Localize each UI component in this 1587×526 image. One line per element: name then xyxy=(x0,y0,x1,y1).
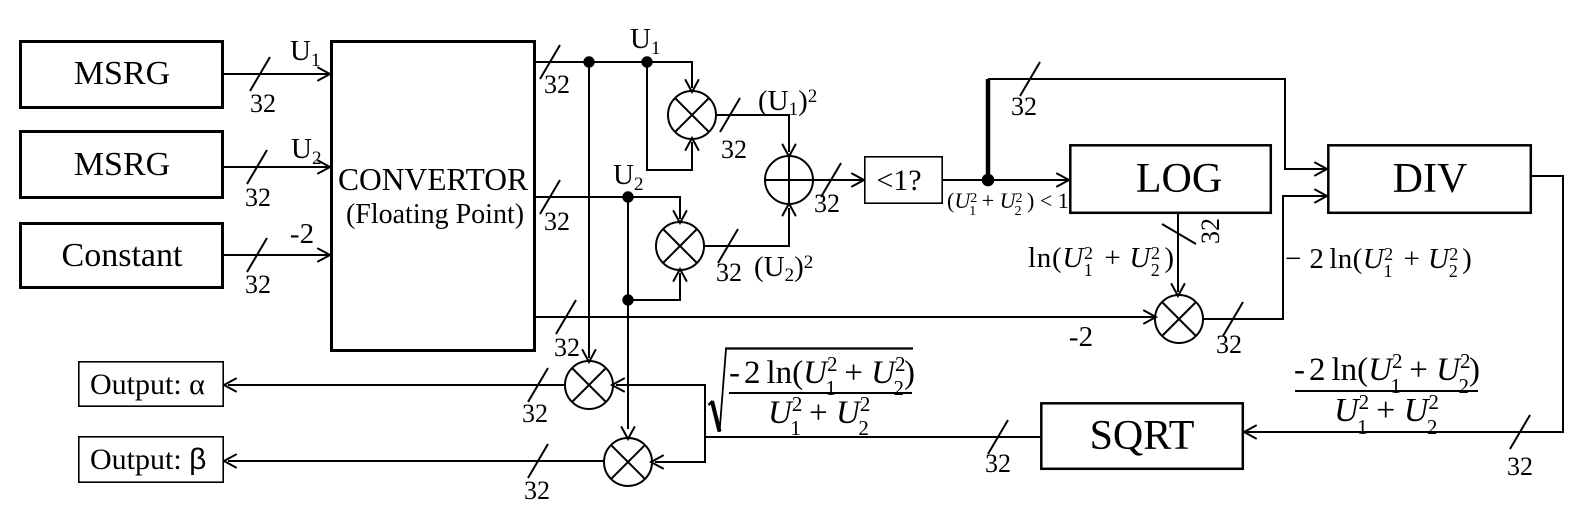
node junction after comparator xyxy=(982,174,995,187)
block SQRT xyxy=(1041,403,1243,469)
multiplier M3 xyxy=(1155,295,1203,343)
svg-text:32: 32 xyxy=(985,449,1011,478)
svg-text:32: 32 xyxy=(544,207,570,236)
svg-text:32: 32 xyxy=(250,89,276,118)
multiplier M1 U1 squared xyxy=(668,91,716,139)
wire LOG to multiplier M3 xyxy=(1162,214,1196,296)
wire U1 to squarer bottom xyxy=(647,62,699,170)
svg-text:DIV: DIV xyxy=(1393,156,1468,202)
svg-text:SQRT: SQRT xyxy=(1090,413,1195,459)
block LOG xyxy=(1070,145,1271,213)
svg-text:-2: -2 xyxy=(1069,321,1093,353)
svg-text:32: 32 xyxy=(524,476,550,505)
label fraction A bar xyxy=(729,392,912,394)
adder A1 xyxy=(765,156,813,204)
svg-text:MSRG: MSRG xyxy=(74,146,170,183)
svg-text:32: 32 xyxy=(544,70,570,99)
svg-text:32: 32 xyxy=(1216,330,1242,359)
block MSRG1 xyxy=(21,42,223,108)
svg-text:Output: α: Output: α xyxy=(90,368,205,401)
svg-text:CONVERTOR: CONVERTOR xyxy=(338,162,528,197)
wire U2 branch to squarer bottom xyxy=(628,269,687,300)
svg-text:Output: β: Output: β xyxy=(90,443,206,476)
wire U2 down to beta multiplier xyxy=(622,197,635,439)
svg-text:Constant: Constant xyxy=(62,237,183,274)
block Output alpha xyxy=(79,362,223,406)
wire junction up to DIV input1 xyxy=(988,62,1327,180)
wire MSRG1 to CONVERTOR xyxy=(224,57,330,91)
wire MSRG2 to CONVERTOR xyxy=(224,150,330,184)
svg-text:32: 32 xyxy=(716,258,742,287)
wire comparator to LOG xyxy=(943,174,1069,187)
wire U1 line from CONVERTOR xyxy=(536,45,699,92)
svg-text:32: 32 xyxy=(1011,92,1037,121)
wire -2 line from CONVERTOR to M3 xyxy=(536,300,1156,334)
svg-text:32: 32 xyxy=(522,399,548,428)
wire M5 to Output beta xyxy=(224,444,605,478)
multiplier M4 alpha xyxy=(565,361,613,409)
block CONVERTOR xyxy=(332,42,535,351)
wire Constant to CONVERTOR xyxy=(224,238,330,272)
block DIV xyxy=(1328,145,1531,213)
block Constant xyxy=(21,224,223,288)
wire M3 to DIV input2 xyxy=(1202,190,1327,337)
label fraction B bar xyxy=(1295,390,1478,392)
svg-text:32: 32 xyxy=(721,135,747,164)
node junction on U1 line xyxy=(583,56,594,67)
svg-text:32: 32 xyxy=(245,183,271,212)
wire M4 to Output alpha xyxy=(224,368,566,402)
svg-text:32: 32 xyxy=(245,270,271,299)
wire M1 to adder xyxy=(715,98,796,157)
svg-text:(Floating Point): (Floating Point) xyxy=(346,199,524,230)
wire DIV to SQRT xyxy=(1244,176,1563,449)
svg-text:32: 32 xyxy=(1196,218,1225,244)
svg-text:32: 32 xyxy=(1507,452,1533,481)
wire M2 to adder xyxy=(703,204,796,264)
block comparator <1? xyxy=(865,157,942,203)
block MSRG2 xyxy=(21,132,223,198)
svg-text:MSRG: MSRG xyxy=(74,55,170,92)
multiplier M2 U2 squared xyxy=(656,222,704,270)
wire line1 junction down to alpha multiplier xyxy=(583,62,596,362)
wire U2 line from CONVERTOR xyxy=(536,180,687,223)
multiplier M5 beta xyxy=(604,438,652,486)
block Output beta xyxy=(79,437,223,482)
svg-text:32: 32 xyxy=(814,189,840,218)
svg-text:<1?: <1? xyxy=(876,164,921,197)
node U2 junction xyxy=(622,191,633,202)
node U1 junction xyxy=(641,56,652,67)
svg-text:32: 32 xyxy=(554,333,580,362)
wire adder to comparator xyxy=(813,163,865,197)
node junction U2 branch xyxy=(622,294,633,305)
svg-text:-2: -2 xyxy=(290,218,314,250)
wire SQRT output to alpha and beta multipliers xyxy=(612,379,1040,469)
radical sign xyxy=(709,401,713,405)
svg-text:LOG: LOG xyxy=(1136,156,1222,202)
